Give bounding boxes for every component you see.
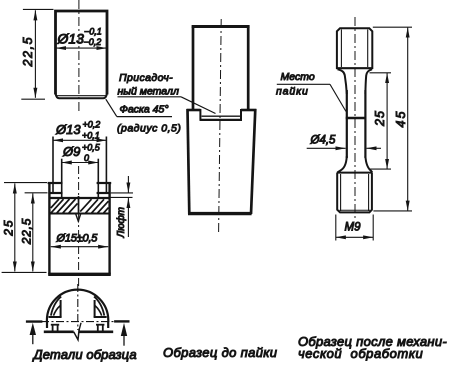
fig5 left inner edge (49, 297, 62, 317)
fig4 dimension Ø4,5 (307, 135, 381, 149)
fig5 left clamp mark (26, 322, 43, 345)
svg-text:Образец до пайки: Образец до пайки (163, 345, 277, 360)
fig1 rod outline (56, 11, 108, 98)
label filler metal (Присадочный металл) (118, 72, 216, 114)
fig5 right inner edge (94, 297, 107, 317)
fig5 right clamp mark (114, 321, 129, 345)
fig4 dimension 25 (369, 73, 392, 169)
fig1 dimension 22,5 (21, 9, 54, 99)
svg-text:Ø15±0,5: Ø15±0,5 (56, 233, 99, 245)
svg-text:Ø4,5: Ø4,5 (310, 135, 337, 147)
fig1 rod centerline (78, 0, 80, 114)
svg-text:25: 25 (1, 218, 15, 236)
fig5 horizontal centerline (26, 321, 130, 323)
fig3 upper rod (192, 27, 250, 111)
fig4 bottom flare (338, 156, 373, 172)
fig4 dimension 45 (373, 27, 412, 211)
svg-text:(радиус 0,5): (радиус 0,5) (117, 123, 181, 135)
fig3 assembly centerline (219, 19, 222, 232)
fig4 specimen centerline (354, 17, 356, 219)
svg-text:22,5: 22,5 (21, 36, 35, 68)
svg-text:Ø13: Ø13 (57, 31, 85, 47)
svg-text:Ø9: Ø9 (62, 144, 80, 159)
svg-text:25: 25 (373, 110, 387, 127)
fig4 solder joint line (346, 117, 367, 119)
fig2 clearance dimension (люфт) (110, 176, 133, 239)
svg-text:Ø13: Ø13 (55, 122, 81, 137)
svg-text:−0,2: −0,2 (84, 37, 102, 47)
fig5 right foot (96, 325, 104, 331)
svg-text:+0,1: +0,1 (82, 131, 100, 141)
fig5 base with break notch (44, 323, 113, 340)
caption specimen after machining (298, 334, 447, 361)
fig4 top threaded head (336, 28, 373, 69)
fig1 dimension Ø13 -0,1 -0,2 (56, 27, 107, 49)
svg-text:Присадоч-: Присадоч- (119, 72, 173, 84)
fig5 vertical centerline (77, 284, 79, 330)
fig5 dome outline (47, 290, 108, 328)
svg-text:Место: Место (281, 71, 315, 83)
fig3 lower cup (187, 109, 257, 214)
fig4 gauge rod (347, 90, 366, 158)
caption specimen before soldering (163, 345, 277, 360)
svg-text:+0,2: +0,2 (83, 120, 101, 130)
svg-text:Детали образца: Детали образца (32, 347, 137, 362)
fig2 cup section outline (48, 182, 112, 275)
fig2 dimension 25 (1, 183, 47, 272)
label chamfer (Фаска 45° радиус 0,5) (106, 99, 182, 134)
svg-text:ный металл: ный металл (118, 86, 179, 98)
fig4 bottom threaded head (337, 173, 373, 213)
svg-text:пайки: пайки (276, 86, 309, 98)
caption parts of specimen (32, 347, 137, 362)
fig4 dimension М9 (336, 215, 373, 241)
fig2 dimension Ø9 +0,5 0 (62, 143, 101, 198)
fig2 dimension Ø15±0,5 (51, 233, 108, 247)
svg-text:0: 0 (84, 153, 89, 163)
label solder place (Место пайки) (276, 71, 346, 112)
fig2 dimension 22,5 (2, 193, 48, 273)
svg-text:М9: М9 (345, 222, 362, 234)
fig2 centerline (78, 166, 80, 289)
fig2 solder ring hatched section (50, 196, 108, 214)
fig5 left foot (51, 325, 59, 331)
svg-text:Люфт: Люфт (116, 207, 127, 238)
svg-text:−0,1: −0,1 (84, 27, 102, 37)
fig4 top shoulder (338, 69, 373, 94)
fig2 break notch (76, 214, 81, 221)
svg-text:22,5: 22,5 (19, 218, 33, 246)
svg-text:+0,5: +0,5 (82, 143, 101, 153)
fig3 filler metal line (202, 115, 241, 117)
fig2 dimension Ø13 +0,2 +0,1 (53, 120, 106, 193)
svg-text:45: 45 (394, 110, 408, 128)
svg-text:ческой обработки: ческой обработки (298, 346, 423, 361)
svg-text:Фаска 45°: Фаска 45° (120, 104, 169, 116)
